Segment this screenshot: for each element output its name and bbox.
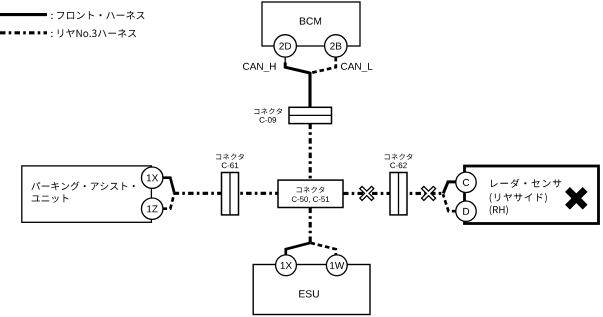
legend: rear No.3 harness sample line bbox=[0, 31, 47, 34]
label パーキング・アシスト・ line1 bbox=[31, 182, 134, 191]
net label CAN_H text bbox=[243, 63, 276, 72]
text C-09 bbox=[260, 117, 277, 123]
wire: rear No.3 harness, C-50 box to radar junction (dash-dot) bbox=[343, 192, 443, 195]
pin 2B of BCM bbox=[325, 35, 347, 57]
connector C-62 (inline, 2 columns) bbox=[390, 173, 407, 215]
pin label 1Z bbox=[147, 205, 158, 212]
break mark X (left of C-62) bbox=[355, 182, 378, 205]
text C-61 bbox=[222, 163, 239, 169]
pin label 2D bbox=[279, 43, 291, 50]
pin 1X of ESU bbox=[276, 255, 297, 276]
legend: rear No.3 harness label リヤNo.3ハーネス bbox=[51, 29, 136, 37]
wire: CAN_H front-harness from 2D to junction (solid) bbox=[285, 63, 310, 74]
pin label 1W bbox=[330, 262, 344, 269]
text C-50, C-51 bbox=[292, 197, 329, 203]
box: radar sensor (rear side RH), thick border bbox=[465, 166, 599, 224]
wire: radar sensor pin C to junction (solid) bbox=[443, 182, 456, 194]
connector C-09 (inline, 2 rows) bbox=[289, 107, 332, 123]
label (リヤサイド) bbox=[490, 193, 547, 203]
pin 1X of parking assist unit bbox=[142, 167, 163, 188]
wire: ESU junction to pin 1W (dashed) bbox=[310, 243, 335, 255]
pin 1W of ESU bbox=[326, 255, 347, 276]
legend: front harness sample line bbox=[0, 13, 47, 16]
pin 2D of BCM bbox=[274, 35, 296, 57]
label コネクタ for C-09 bbox=[254, 108, 282, 114]
wire: parking unit pin 1X to junction (solid) bbox=[163, 178, 175, 193]
box: connector C-50, C-51 bbox=[278, 180, 343, 207]
label コネクタ for C-62 bbox=[385, 154, 413, 160]
fault mark: solid X in radar box bbox=[559, 181, 594, 216]
pin label 1X bbox=[147, 174, 158, 181]
box: BCM bbox=[262, 2, 360, 46]
text BCM bbox=[300, 17, 321, 24]
legend: front harness label フロント・ハーネス bbox=[51, 11, 144, 19]
wire: CAN_L rear-harness from 2B to junction (dashed) bbox=[311, 57, 336, 73]
pin label 1X (ESU) bbox=[281, 262, 292, 269]
wire: BCM pin 2D lead (thin) bbox=[284, 57, 286, 64]
label (RH) bbox=[490, 205, 508, 215]
pin D of radar sensor bbox=[456, 201, 476, 221]
wire: trunk from CAN junction down to connector C-09 (solid) bbox=[308, 72, 311, 108]
label コネクタ inside C-50/C-51 box bbox=[297, 187, 325, 193]
box: ESU bbox=[253, 265, 370, 315]
break mark X (right of C-62) bbox=[417, 182, 440, 205]
wire: rear harness from C-09 down to C-50 box (dash-dot) bbox=[309, 124, 312, 180]
net label CAN_L text bbox=[341, 63, 372, 72]
pin label C bbox=[463, 179, 469, 186]
wire: rear No.3 harness, left junction to C-50 box (dash-dot) bbox=[174, 192, 278, 195]
label コネクタ for C-61 bbox=[216, 154, 244, 160]
text C-62 bbox=[390, 163, 407, 169]
wire: parking unit pin 1Z to junction (dashed) bbox=[163, 194, 175, 209]
box: parking assist unit bbox=[22, 166, 152, 222]
connector C-61 (inline, 2 columns) bbox=[222, 173, 239, 215]
wire: radar sensor pin D to junction (dashed) bbox=[443, 194, 457, 211]
pin C of radar sensor bbox=[456, 172, 476, 192]
pin label D bbox=[463, 208, 469, 215]
wire: rear harness from C-50 box down to ESU junction (dash-dot) bbox=[309, 208, 312, 244]
pin label 2B bbox=[330, 43, 341, 50]
label レーダ・センサ bbox=[491, 179, 561, 188]
text ESU bbox=[299, 290, 319, 297]
pin 1Z of parking assist unit bbox=[142, 198, 163, 219]
label ユニット line2 bbox=[32, 194, 69, 202]
wire: ESU junction to pin 1X (solid) bbox=[286, 243, 311, 255]
